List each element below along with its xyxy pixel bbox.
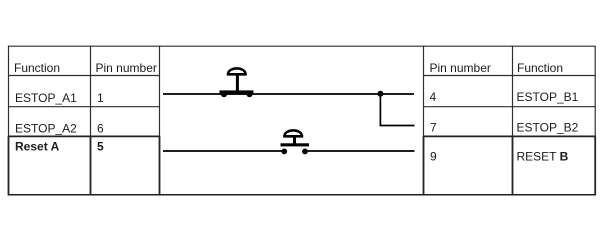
left table reset row heavy border [8, 135, 160, 137]
svg-text:5: 5 [97, 140, 104, 154]
S2 actuator stem [293, 137, 296, 145]
S1 terminal dot left [221, 91, 227, 97]
svg-text:ESTOP_B2: ESTOP_B2 [517, 120, 579, 134]
svg-text:Function: Function [517, 61, 563, 75]
drawing outer bottom border [8, 194, 595, 196]
S1 contact bridge bar [220, 90, 254, 94]
svg-text:Pin number: Pin number [430, 61, 491, 75]
svg-text:RESET B: RESET B [517, 150, 569, 164]
wire: horizontal stub to pin 7 [380, 125, 415, 127]
S2 terminal dot right [302, 149, 308, 155]
S1 mushroom cap [228, 68, 245, 74]
right table reset row heavy border [424, 135, 596, 137]
svg-text:6: 6 [97, 121, 104, 135]
junction node at x380 [377, 91, 383, 97]
reset row heavy vertical borders (right table) [424, 136, 596, 196]
svg-text:ESTOP_B1: ESTOP_B1 [517, 90, 579, 104]
svg-text:9: 9 [430, 150, 437, 164]
left table frame [8, 46, 160, 196]
S2 mushroom cap [285, 130, 302, 136]
svg-text:ESTOP_A2: ESTOP_A2 [15, 121, 77, 135]
wire: pin5 to reset contact (left) [163, 150, 284, 152]
svg-text:7: 7 [430, 120, 437, 134]
wire: pin1 to pin4 (E-stop channel A/B) [163, 93, 414, 95]
reset row heavy vertical borders (left table) [9, 136, 160, 196]
svg-text:1: 1 [97, 91, 104, 105]
right table frame [424, 46, 596, 196]
S1 terminal dot right [246, 91, 252, 97]
svg-text:ESTOP_A1: ESTOP_A1 [15, 91, 77, 105]
svg-text:Reset A: Reset A [15, 140, 60, 154]
pushbutton S2 reset NO contact [281, 130, 310, 154]
svg-text:4: 4 [430, 90, 437, 104]
pushbutton S1 E-stop mushroom head NC contact [220, 68, 254, 97]
S1 actuator stem [236, 75, 239, 92]
svg-text:Function: Function [14, 61, 60, 75]
S2 contact bridge bar [281, 143, 310, 146]
S1 mushroom cap base bar [227, 73, 247, 76]
drawing outer top border [8, 45, 595, 47]
svg-text:Pin number: Pin number [96, 61, 157, 75]
wire: junction drop to pin7 level [379, 94, 381, 126]
S2 terminal dot left [281, 149, 287, 155]
S2 mushroom cap base bar [283, 135, 303, 138]
wire: reset contact to pin 9 (right) [305, 150, 415, 152]
